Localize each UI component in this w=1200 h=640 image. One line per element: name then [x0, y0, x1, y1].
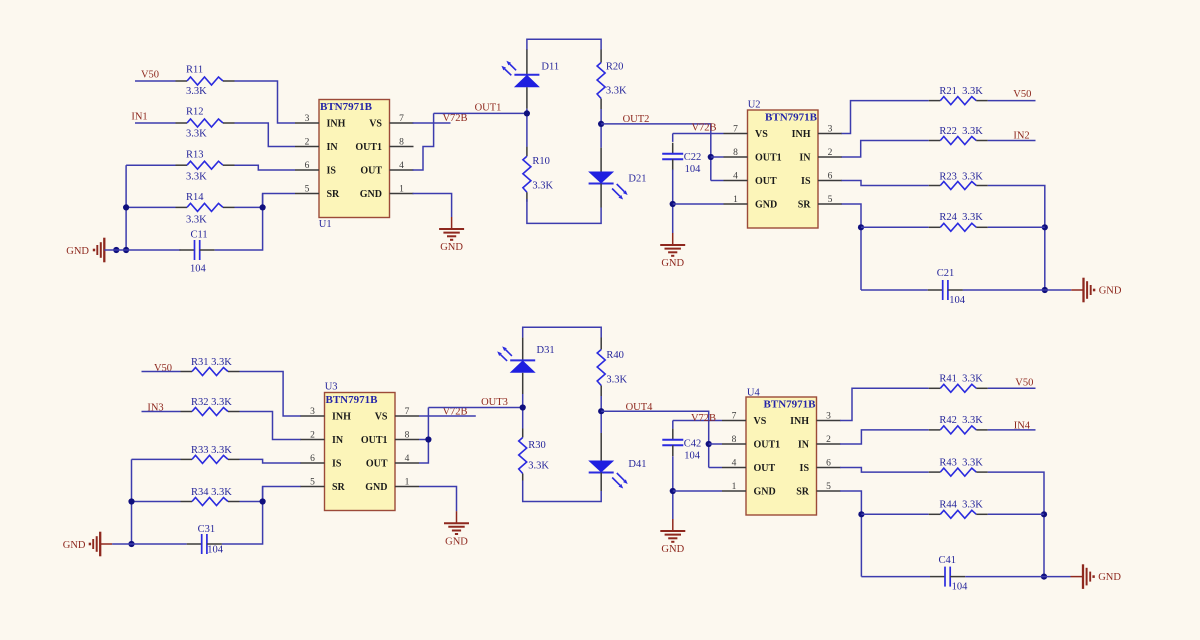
- wire C21 row left: [861, 289, 928, 291]
- svg-text:R40: R40: [606, 350, 624, 361]
- svg-text:OUT1: OUT1: [755, 153, 782, 164]
- svg-text:V72B: V72B: [691, 123, 716, 134]
- ground (earth) under C42: [660, 519, 685, 555]
- wire C21 row right: [963, 289, 1045, 291]
- wire R21 to V50: [988, 100, 1036, 102]
- resistor R21: [929, 97, 988, 105]
- svg-text:R20: R20: [606, 62, 624, 73]
- LED D31: [497, 346, 536, 372]
- svg-text:GND: GND: [440, 242, 463, 253]
- wire U4 pin 7 V72B: [673, 420, 722, 422]
- svg-text:GND: GND: [661, 544, 684, 555]
- capacitor C11: [180, 240, 215, 260]
- LED D41: [588, 461, 628, 489]
- svg-text:U1: U1: [319, 219, 332, 230]
- svg-text:R13: R13: [186, 150, 204, 161]
- wire C42 to ground: [672, 456, 674, 519]
- U3 pin 8 stub: [395, 439, 419, 441]
- svg-text:R31 3.3K: R31 3.3K: [191, 357, 232, 368]
- wire R44 row left: [861, 513, 928, 515]
- LED D11: [501, 61, 540, 87]
- wire R24 row left: [861, 226, 929, 228]
- svg-text:104: 104: [684, 451, 701, 462]
- wire OUT2 to U2 pin 8: [711, 156, 724, 158]
- wire U4 pin 6 to R43: [840, 468, 929, 473]
- svg-text:C41: C41: [939, 555, 957, 566]
- wire U3 pin 7 V72B stub: [419, 415, 476, 417]
- svg-text:GND: GND: [63, 540, 86, 551]
- wire V72B to C42: [672, 421, 674, 429]
- svg-text:6: 6: [826, 458, 831, 468]
- wire D11 to R10: [526, 109, 528, 147]
- svg-text:IN: IN: [799, 153, 811, 164]
- wire OUT3 net: [428, 407, 522, 409]
- junction C31 row left: [128, 541, 134, 547]
- wire U4 pin 1 wire: [673, 490, 722, 492]
- svg-text:OUT: OUT: [366, 459, 388, 470]
- svg-text:R23 3.3K: R23 3.3K: [939, 171, 983, 182]
- svg-text:OUT: OUT: [360, 166, 382, 177]
- junction OUT3 node: [520, 404, 526, 410]
- junction U4 pin 8 tap: [706, 441, 712, 447]
- U2 pin 6 stub: [818, 180, 842, 182]
- U2 pin 2 stub: [818, 156, 842, 158]
- svg-text:V72B: V72B: [442, 113, 467, 124]
- capacitor C21: [928, 280, 963, 300]
- wire R30 top lead: [522, 429, 524, 438]
- wire R40 top lead: [600, 338, 602, 350]
- wire maroon stub to ground (row1 right): [1071, 289, 1083, 291]
- wire R40 bottom lead: [600, 386, 602, 397]
- wire OUT1 net: [434, 112, 527, 114]
- resistor R11: [176, 77, 235, 85]
- svg-text:8: 8: [399, 137, 404, 147]
- svg-text:OUT1: OUT1: [355, 142, 382, 153]
- resistor R10: [523, 147, 531, 202]
- svg-text:V50: V50: [141, 69, 159, 80]
- U4 pin 1 stub: [722, 490, 746, 492]
- svg-text:C31: C31: [198, 524, 216, 535]
- resistor R12: [176, 119, 235, 127]
- U3 pin 2 stub: [301, 439, 325, 441]
- svg-text:C21: C21: [937, 268, 955, 279]
- svg-text:IN: IN: [798, 440, 810, 451]
- svg-text:R12: R12: [186, 107, 204, 118]
- wire U2 pin 7 V72B: [673, 133, 724, 135]
- wire R24 row right: [988, 226, 1045, 228]
- wire OUT4 to U4 pin 8: [709, 443, 722, 445]
- IC U3 (BTN7971B): [325, 393, 396, 511]
- U4 pin 8 stub: [722, 443, 746, 445]
- svg-text:R10: R10: [532, 156, 550, 167]
- svg-text:IN1: IN1: [131, 112, 147, 123]
- wire maroon stub to ground (row2 right): [1071, 576, 1084, 578]
- svg-text:7: 7: [733, 124, 738, 134]
- svg-text:GND: GND: [66, 246, 89, 257]
- wire U4 pin 2 to R42: [840, 430, 929, 444]
- U1 pin 6 stub: [295, 169, 319, 171]
- ground (earth) under C22: [660, 233, 685, 269]
- U1 pin 2 stub: [295, 146, 319, 148]
- resistor R43: [929, 468, 988, 476]
- svg-text:3.3K: 3.3K: [186, 129, 207, 140]
- wire R30 to bottom row2: [523, 481, 602, 502]
- resistor R40: [597, 349, 605, 385]
- svg-text:8: 8: [732, 435, 737, 445]
- wire IN3 to R32: [142, 411, 181, 413]
- svg-text:OUT3: OUT3: [481, 397, 508, 408]
- U2 pin 8 stub: [724, 156, 748, 158]
- svg-text:1: 1: [399, 184, 404, 194]
- wire D31 anode lead: [522, 338, 524, 361]
- U1 pin 4 stub: [390, 169, 414, 171]
- wire IN1 to R12: [135, 122, 176, 124]
- wire OUT2 net: [601, 124, 711, 181]
- svg-text:104: 104: [952, 582, 969, 593]
- wire GND to C11: [104, 249, 180, 251]
- U2 pin 3 stub: [818, 133, 842, 135]
- wire U1 pin 7 V72B stub: [413, 122, 451, 124]
- svg-text:IS: IS: [801, 176, 811, 187]
- svg-text:OUT1: OUT1: [754, 440, 781, 451]
- svg-text:V72B: V72B: [691, 413, 716, 424]
- svg-text:104: 104: [949, 295, 966, 306]
- wire R10 to bottom: [527, 199, 601, 223]
- wire C31 to node D: [222, 487, 263, 545]
- svg-text:8: 8: [405, 430, 410, 440]
- resistor R20: [597, 62, 605, 98]
- svg-text:R34 3.3K: R34 3.3K: [191, 487, 232, 498]
- wire V50 to R11: [135, 80, 176, 82]
- junction U3 pin 8 tap: [425, 436, 431, 442]
- capacitor C31: [187, 534, 222, 554]
- svg-text:IS: IS: [332, 459, 342, 470]
- resistor R41: [929, 384, 988, 392]
- svg-text:7: 7: [405, 407, 410, 417]
- wire R31 to U3 pin 3: [240, 372, 302, 417]
- svg-text:5: 5: [305, 184, 310, 194]
- svg-text:2: 2: [310, 430, 315, 440]
- U1 pin 1 stub: [390, 193, 414, 195]
- svg-text:BTN7971B: BTN7971B: [320, 101, 373, 113]
- svg-text:GND: GND: [360, 189, 382, 200]
- junction R44 right: [1041, 511, 1047, 517]
- svg-text:D21: D21: [628, 173, 646, 184]
- junction C11 row left: [123, 247, 129, 253]
- junction OUT4 node: [598, 408, 604, 414]
- svg-text:5: 5: [310, 477, 315, 487]
- U4 pin 4 stub: [722, 467, 746, 469]
- wire U4 pin 3 to R41: [840, 388, 929, 420]
- svg-text:3: 3: [305, 114, 310, 124]
- wire R32 to U3 pin 2: [240, 412, 302, 440]
- wire D11 cathode lead: [526, 87, 528, 108]
- wire D31 cathode lead: [522, 373, 524, 394]
- svg-text:5: 5: [828, 195, 833, 205]
- resistor R34: [181, 498, 240, 506]
- svg-text:IS: IS: [327, 166, 337, 177]
- resistor R42: [929, 426, 988, 434]
- svg-text:SR: SR: [796, 487, 810, 498]
- wire D11 anode lead: [526, 50, 528, 75]
- wire C41 row left: [861, 576, 930, 578]
- capacitor C42: [662, 429, 683, 457]
- wire maroon stub from ground (row2 left): [100, 543, 112, 545]
- LED D21: [588, 172, 628, 200]
- svg-text:R41 3.3K: R41 3.3K: [939, 374, 983, 385]
- svg-text:INH: INH: [327, 119, 346, 130]
- svg-text:VS: VS: [369, 119, 382, 130]
- wire node B to U1 pin 5: [263, 194, 295, 208]
- IC U2 (BTN7971B): [748, 110, 819, 228]
- ground GND (row2 left): [63, 532, 100, 557]
- U1 pin 8 stub: [390, 146, 414, 148]
- svg-text:R42 3.3K: R42 3.3K: [939, 415, 983, 426]
- svg-text:104: 104: [190, 263, 207, 274]
- svg-text:VS: VS: [375, 412, 388, 423]
- svg-text:2: 2: [305, 137, 310, 147]
- svg-text:R32 3.3K: R32 3.3K: [191, 397, 232, 408]
- junction U2 pin 1 node: [670, 201, 676, 207]
- svg-text:1: 1: [732, 482, 737, 492]
- resistor R23: [929, 182, 988, 190]
- wire D41 anode lead: [600, 433, 602, 461]
- U4 pin 2 stub: [817, 443, 841, 445]
- svg-text:R30: R30: [528, 440, 546, 451]
- svg-text:SR: SR: [327, 189, 341, 200]
- junction R34 right: [260, 498, 266, 504]
- svg-text:OUT: OUT: [754, 463, 776, 474]
- wire R23 to right bus: [988, 186, 1045, 291]
- junction R14 right: [260, 204, 266, 210]
- wire U2 pin 5 down: [842, 204, 862, 290]
- wire D31 to R30: [522, 394, 524, 429]
- U2 pin 5 stub: [818, 203, 842, 205]
- svg-text:R24 3.3K: R24 3.3K: [939, 212, 983, 223]
- svg-text:4: 4: [732, 458, 737, 468]
- svg-text:IN2: IN2: [1013, 131, 1029, 142]
- wire C41 row right: [965, 576, 1044, 578]
- svg-text:GND: GND: [754, 487, 776, 498]
- wire R40 to D41: [600, 396, 602, 433]
- svg-text:1: 1: [405, 477, 410, 487]
- svg-text:OUT2: OUT2: [623, 114, 650, 125]
- wire left bus vertical: [125, 165, 127, 250]
- wire node C to R33: [132, 458, 181, 460]
- svg-text:OUT4: OUT4: [626, 402, 654, 413]
- junction GND row1 tap: [113, 247, 119, 253]
- wire R12 to U1 pin 2: [235, 123, 296, 147]
- svg-text:INH: INH: [790, 416, 809, 427]
- svg-text:V50: V50: [1013, 89, 1031, 100]
- wire C41 to right ground: [1044, 576, 1071, 578]
- junction R14 left: [123, 204, 129, 210]
- wire U2 pin 1 wire: [673, 203, 724, 205]
- wire U2 pin 2 to R22: [842, 141, 929, 158]
- svg-text:VS: VS: [754, 416, 767, 427]
- wire C22 to ground: [672, 170, 674, 234]
- resistor R33: [181, 455, 240, 463]
- resistor R30: [519, 437, 527, 473]
- svg-text:INH: INH: [332, 412, 351, 423]
- wire U3 pin 1 to ground: [419, 487, 457, 512]
- U4 pin 3 stub: [817, 420, 841, 422]
- svg-text:GND: GND: [755, 200, 777, 211]
- svg-text:4: 4: [399, 161, 404, 171]
- svg-text:U4: U4: [747, 388, 761, 399]
- wire V72B to C22: [672, 134, 674, 142]
- wire R43 to right bus row2: [988, 472, 1044, 576]
- svg-text:OUT1: OUT1: [361, 435, 388, 446]
- svg-text:IN: IN: [332, 435, 344, 446]
- svg-text:C22: C22: [684, 152, 702, 163]
- wire R11 to U1 pin 3: [235, 81, 296, 123]
- svg-text:C11: C11: [191, 229, 208, 240]
- wire C21 to right ground: [1045, 289, 1072, 291]
- IC U1 (BTN7971B): [319, 100, 390, 218]
- U1 pin 3 stub: [295, 122, 319, 124]
- svg-text:SR: SR: [798, 200, 812, 211]
- wire node A to R13: [126, 164, 175, 166]
- svg-text:INH: INH: [792, 129, 811, 140]
- svg-text:GND: GND: [1099, 285, 1122, 296]
- wire R22 to IN2: [988, 140, 1036, 142]
- resistor R32: [181, 408, 240, 416]
- svg-text:R43 3.3K: R43 3.3K: [939, 457, 983, 468]
- svg-text:3.3K: 3.3K: [606, 85, 627, 96]
- svg-text:3.3K: 3.3K: [186, 86, 207, 97]
- wire R42 to IN4: [988, 429, 1036, 431]
- svg-text:R11: R11: [186, 65, 203, 76]
- svg-text:1: 1: [733, 195, 738, 205]
- wire node D to U3 pin 5: [263, 487, 301, 502]
- svg-text:D41: D41: [628, 459, 646, 470]
- U3 pin 5 stub: [301, 486, 325, 488]
- svg-text:4: 4: [405, 454, 410, 464]
- junction R24 right: [1042, 224, 1048, 230]
- junction C41 right: [1041, 574, 1047, 580]
- svg-text:3.3K: 3.3K: [532, 181, 553, 192]
- wire U4 pin 5 down: [840, 491, 861, 577]
- resistor R24: [929, 223, 988, 231]
- svg-text:6: 6: [305, 161, 310, 171]
- svg-text:3: 3: [826, 411, 831, 421]
- wire R33 to U3 pin 6: [240, 459, 302, 463]
- wire R34 to node D: [240, 501, 263, 503]
- svg-text:R21 3.3K: R21 3.3K: [939, 86, 983, 97]
- svg-text:5: 5: [826, 482, 831, 492]
- svg-text:3.3K: 3.3K: [186, 214, 207, 225]
- wire R41 to V50: [988, 387, 1036, 389]
- wire R14 to node B: [235, 206, 263, 208]
- svg-text:6: 6: [828, 171, 833, 181]
- U2 pin 1 stub: [724, 203, 748, 205]
- svg-text:GND: GND: [365, 482, 387, 493]
- wire U2 pin 3 to R21: [842, 101, 929, 134]
- svg-text:4: 4: [733, 171, 738, 181]
- ground (earth) under U1: [439, 217, 464, 253]
- svg-text:3: 3: [828, 124, 833, 134]
- wire V50 to R31: [142, 371, 181, 373]
- capacitor C22: [662, 143, 683, 171]
- wire U1 pin 4 to OUT1 riser: [413, 113, 434, 170]
- svg-text:7: 7: [732, 411, 737, 421]
- svg-text:R22 3.3K: R22 3.3K: [939, 126, 983, 137]
- ground (earth) under U3: [444, 511, 469, 547]
- wire R20 top lead: [600, 50, 602, 63]
- svg-text:BTN7971B: BTN7971B: [326, 394, 379, 406]
- wire C11 to node B: [215, 194, 263, 251]
- wire LED branch top row2: [523, 327, 602, 338]
- svg-text:U3: U3: [325, 382, 338, 393]
- svg-text:SR: SR: [332, 482, 346, 493]
- wire D41 cathode lead: [600, 473, 602, 492]
- capacitor C41: [930, 567, 965, 587]
- svg-text:BTN7971B: BTN7971B: [764, 398, 817, 410]
- U3 pin 7 stub: [395, 415, 419, 417]
- U4 pin 7 stub: [722, 420, 746, 422]
- svg-text:7: 7: [399, 114, 404, 124]
- resistor R14: [176, 203, 235, 211]
- U3 pin 1 stub: [395, 486, 419, 488]
- svg-text:3.3K: 3.3K: [186, 172, 207, 183]
- wire R20 to D21: [600, 109, 602, 148]
- svg-text:3.3K: 3.3K: [528, 460, 549, 471]
- wire OUT2 to U2 pin 4: [711, 180, 724, 182]
- wire U1 pin 1 to ground: [413, 194, 452, 218]
- svg-text:IN4: IN4: [1014, 420, 1031, 431]
- wire D21 cathode lead: [600, 184, 602, 208]
- U3 pin 6 stub: [301, 462, 325, 464]
- U1 pin 5 stub: [295, 193, 319, 195]
- U3 pin 3 stub: [301, 415, 325, 417]
- wire R13 to U1 pin 6: [235, 165, 296, 170]
- junction U2 pin 8 tap: [708, 154, 714, 160]
- junction OUT2 node: [598, 121, 604, 127]
- U3 pin 4 stub: [395, 462, 419, 464]
- svg-text:2: 2: [826, 435, 831, 445]
- U4 pin 6 stub: [817, 467, 841, 469]
- svg-text:IS: IS: [800, 463, 810, 474]
- svg-text:R14: R14: [186, 192, 204, 203]
- IC U4 (BTN7971B): [746, 397, 817, 515]
- svg-text:D11: D11: [541, 62, 559, 73]
- ground GND (row2 right): [1083, 564, 1121, 589]
- resistor R44: [929, 510, 988, 518]
- wire OUT4 to U4 pin 4: [709, 467, 722, 469]
- svg-text:C42: C42: [684, 439, 702, 450]
- wire LED branch top: [527, 39, 601, 50]
- svg-text:2: 2: [828, 148, 833, 158]
- wire R44 row right: [988, 513, 1044, 515]
- svg-text:VS: VS: [755, 129, 768, 140]
- U4 pin 5 stub: [817, 490, 841, 492]
- junction R34 left: [128, 498, 134, 504]
- svg-text:6: 6: [310, 454, 315, 464]
- svg-text:104: 104: [685, 164, 702, 175]
- junction C21 right: [1042, 287, 1048, 293]
- wire U2 pin 6 to R23: [842, 181, 929, 186]
- svg-text:OUT1: OUT1: [475, 103, 502, 114]
- wire OUT4 net: [601, 411, 709, 467]
- svg-text:R33 3.3K: R33 3.3K: [191, 445, 232, 456]
- resistor R31: [181, 368, 240, 376]
- svg-text:104: 104: [207, 545, 224, 556]
- wire R20 bottom lead: [600, 99, 602, 109]
- svg-text:V50: V50: [1015, 377, 1033, 388]
- svg-text:8: 8: [733, 148, 738, 158]
- svg-text:IN: IN: [327, 142, 339, 153]
